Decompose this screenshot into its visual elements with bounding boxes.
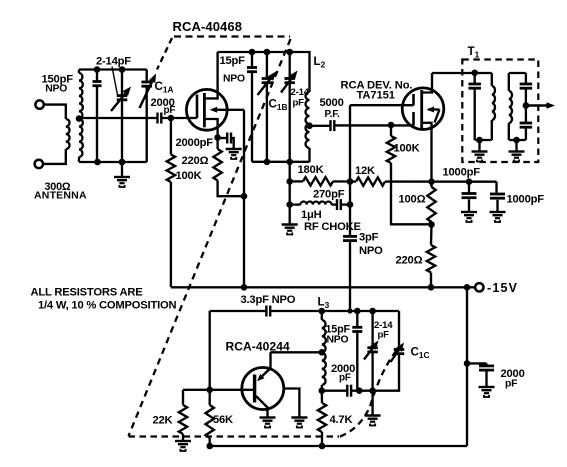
svg-text:1000pF: 1000pF (507, 194, 545, 206)
capacitor 5000pF series (329, 120, 331, 131)
resistor 12K (350, 180, 356, 182)
svg-text:15pF: 15pF (220, 55, 246, 67)
node tank1 bottom a (94, 159, 101, 166)
node source rail (428, 178, 435, 185)
node bottom rail 56K (206, 443, 213, 450)
Q1 substrate arrow (217, 109, 229, 111)
wire T1 primary top (475, 72, 492, 74)
node L1 tap (76, 115, 83, 122)
arrow trimmer osc (364, 348, 373, 360)
inductor L2 (306, 92, 310, 148)
wire tank1 bottom bus (79, 161, 147, 163)
node T1 secondary gnd (513, 137, 520, 144)
output arrow (526, 104, 547, 106)
node osc tank top 2-14 (369, 308, 376, 315)
Q2 substrate arrow (431, 108, 434, 110)
Q1 gate bar (196, 95, 199, 119)
capacitor trimmer 2-14pF osc (371, 311, 373, 348)
capacitor C1C (398, 311, 400, 349)
svg-text:270pF: 270pF (313, 188, 345, 200)
capacitor 150pF NPO (96, 70, 98, 82)
capacitor 3.3pF series (265, 306, 267, 317)
svg-text:5000: 5000 (320, 97, 344, 109)
capacitor 3pF NPO (343, 235, 357, 238)
capacitor trimmer 2-14pF tank1 (121, 70, 123, 96)
ground tank1 (121, 162, 123, 176)
ground T1 primary (478, 140, 480, 151)
node rail right tee (464, 284, 471, 291)
terminal: antenna input bottom (35, 160, 43, 168)
wire right side vertical (466, 287, 468, 446)
svg-text:RF CHOKE: RF CHOKE (304, 221, 362, 233)
wire tank1 top bus (79, 68, 147, 70)
dashed gang line bottom (129, 435, 340, 437)
node gate1/270pF (347, 201, 354, 208)
capacitor C1B (266, 52, 268, 78)
wire T1 secondary bottom (509, 139, 526, 141)
node osc base (206, 387, 213, 394)
wire bottom rail (210, 445, 467, 447)
Q3 emitter lead (262, 370, 268, 376)
transistor Q3 RCA-40244 circle (242, 368, 284, 410)
svg-text:pF: pF (505, 378, 517, 389)
arrow trimmer tank2 (281, 78, 292, 93)
node tank2 bottom b (264, 159, 271, 166)
ground Q3 right (291, 418, 307, 428)
dashed gang line curve to C1C (340, 346, 401, 437)
ground bias left (282, 225, 298, 235)
svg-text:100Ω: 100Ω (399, 194, 426, 206)
capacitor C1A (146, 70, 148, 82)
ground Q3 collector (260, 418, 276, 428)
Q3 collector lead (256, 396, 268, 417)
ground 1000pF B (490, 212, 506, 222)
Q3 base bar (253, 375, 256, 403)
transistor Q2 TA7151 circle (402, 88, 444, 130)
capacitor 2000pF right (467, 362, 487, 364)
capacitor T1 secondary lower (525, 106, 527, 123)
node tank2 bottom c (286, 159, 293, 166)
node rail 220-ohm (428, 284, 435, 291)
capacitor 15pF NPO tank2 (247, 66, 257, 69)
ground osc tank (371, 391, 373, 415)
resistor 220-ohm Q1 source (216, 138, 218, 149)
capacitor T1 secondary upper (525, 73, 527, 84)
svg-text:220Ω: 220Ω (396, 254, 423, 266)
svg-text:-15V: -15V (487, 281, 518, 295)
svg-text:56K: 56K (213, 414, 233, 426)
svg-text:pF: pF (293, 97, 305, 108)
capacitor 1000pF A (468, 182, 470, 194)
svg-text:100K: 100K (394, 142, 420, 154)
svg-text:NPO: NPO (223, 73, 245, 84)
node bottom rail 4.7K (319, 443, 326, 450)
wire terminal-bottom to primary (43, 149, 66, 164)
svg-text:P.F.: P.F. (325, 109, 341, 120)
svg-text:22K: 22K (153, 414, 173, 426)
svg-text:NPO: NPO (327, 335, 349, 346)
node 2-14 bottom (369, 387, 376, 394)
inductor antenna primary winding (66, 119, 70, 149)
svg-text:NPO: NPO (359, 245, 383, 257)
ground 22K (175, 441, 191, 451)
wire base bus (183, 389, 255, 391)
capacitor trimmer 2-14pF tank2 (289, 52, 291, 78)
wire bias left vertical (289, 162, 291, 224)
wire gate2 bus (334, 124, 413, 126)
svg-text:ALL RESISTORS ARE: ALL RESISTORS ARE (31, 287, 144, 299)
svg-text:220Ω: 220Ω (182, 155, 209, 167)
node 15pF bottom (356, 387, 363, 394)
capacitor T1 primary (474, 73, 476, 84)
node gate2 / 100K (388, 122, 395, 129)
svg-text:1/4 W, 10 % COMPOSITION: 1/4 W, 10 % COMPOSITION (38, 300, 177, 312)
svg-text:100K: 100K (176, 170, 202, 182)
wire Q1 substrate down (243, 110, 245, 287)
wire gate1 vertical (349, 105, 351, 236)
ground 2000pF right (479, 387, 495, 397)
terminal: antenna input top (35, 100, 43, 108)
node tank1 top a (94, 66, 101, 73)
wire drain to T1 (432, 72, 475, 74)
resistor 180K (290, 180, 303, 182)
svg-text:NPO: NPO (45, 84, 67, 95)
svg-text:180K: 180K (298, 164, 324, 176)
ground Q1 bypass (226, 149, 242, 159)
Q2 drain lead (422, 73, 432, 93)
dashed gang line top (174, 35, 290, 37)
node 2000pF tee (464, 360, 471, 367)
inductor L1 secondary winding (79, 73, 83, 157)
svg-text:12K: 12K (355, 165, 375, 177)
capacitor 2000pF osc (322, 390, 347, 392)
resistor 22K (182, 390, 184, 405)
Q2 gate1 bar (412, 94, 415, 105)
capacitor 15pF NPO osc (356, 311, 358, 327)
svg-text:pF: pF (378, 330, 390, 341)
Q3 right lead (284, 389, 300, 417)
node T1 input (471, 70, 478, 77)
wire tank2 left side top (251, 52, 253, 67)
node Q1 source (214, 134, 221, 141)
svg-text:2-14pF: 2-14pF (96, 55, 131, 67)
node osc tank top 15pF (354, 308, 361, 315)
wire emitter to L3 tap (271, 351, 322, 353)
node tank2 top b (264, 49, 271, 56)
node gate1 bus / 100K top (168, 115, 175, 122)
inductor 1uH RF choke (290, 203, 301, 205)
resistor 100K mixer (390, 125, 392, 136)
node T1 output tap (523, 102, 530, 109)
inductor T1 secondary (508, 73, 510, 91)
resistor 56K (209, 390, 211, 405)
dashed gang line diagonal (129, 39, 291, 436)
node T1 primary gnd (476, 137, 483, 144)
resistor 100K Q1 gate (170, 118, 172, 155)
arrow C1C (391, 350, 399, 362)
Q2 source lead (422, 123, 432, 182)
capacitor 270pF (336, 199, 338, 210)
svg-text:3pF: 3pF (359, 232, 379, 244)
inductor L3 (321, 311, 323, 320)
capacitor 1000pF B (495, 182, 497, 194)
node bias left 180K (286, 178, 293, 185)
svg-text:pF: pF (164, 105, 176, 116)
node 1000pF A (466, 178, 473, 185)
node L3 bottom (319, 387, 326, 394)
node L2 tap (306, 123, 313, 130)
Q1 source lead (204, 119, 217, 138)
svg-text:TA7151: TA7151 (357, 89, 395, 101)
wire terminal-top to primary (44, 105, 66, 119)
svg-text:4.7K: 4.7K (330, 414, 353, 426)
node bias left choke (286, 201, 293, 208)
wire -15V rail (171, 286, 475, 288)
leader line 2-14pF tank1 (112, 67, 118, 96)
arrow C1B (258, 79, 271, 95)
node L3 tap (319, 349, 326, 356)
svg-text:ANTENNA: ANTENNA (34, 189, 87, 201)
node gate1/180K/12K (347, 178, 354, 185)
node osc tank top L3 (319, 308, 326, 315)
svg-text:2000pF: 2000pF (176, 137, 214, 149)
svg-text:3.3pF NPO: 3.3pF NPO (241, 294, 296, 306)
inductor T1 primary (491, 73, 493, 86)
arrow trimmer 2-14pF tank1 (111, 94, 125, 112)
transistor Q1 RCA-40468 circle (186, 89, 227, 130)
Q2 gate2 bar (412, 112, 415, 126)
wire L2 tap to 5000pF (310, 125, 330, 127)
terminal -15V (475, 283, 483, 291)
dashed gang line label pointer (157, 38, 172, 70)
node tank2 top a (249, 49, 256, 56)
wire T1 primary bottom (475, 139, 492, 141)
wire tank2 bottom bus (252, 161, 310, 163)
capacitor 2000pF bypass Q1 (218, 137, 227, 139)
wire 3.3pF bus right (270, 310, 399, 312)
T1 dashed box (462, 60, 538, 163)
svg-text:RCA-40468: RCA-40468 (173, 19, 243, 34)
wire osc left vertical (209, 311, 211, 390)
ground 1000pF A (461, 212, 477, 222)
node tank2 top c (286, 49, 293, 56)
wire 3.3pF bus (210, 310, 267, 312)
svg-text:pF: pF (339, 373, 351, 384)
Q1 drain lead (204, 52, 217, 98)
resistor 4.7K (321, 391, 324, 403)
node osc tank top inj (347, 308, 352, 313)
node substrate rail join (241, 284, 248, 291)
node substrate/220 join (241, 193, 248, 200)
arrow C1A (140, 82, 153, 108)
wire L1 top lead (78, 70, 80, 74)
resistor 220-ohm mixer (430, 225, 433, 246)
node tank1 top b (119, 66, 126, 73)
ground T1 secondary (515, 140, 517, 151)
node 100-ohm bottom (428, 221, 435, 228)
node tank1 bottom b (119, 159, 126, 166)
wire L1 bottom lead (78, 157, 80, 162)
capacitor 2000pF series (156, 113, 158, 124)
wire series cap to gate (161, 117, 197, 119)
Q1 channel bar (203, 93, 206, 127)
wire tank2 top bus (218, 52, 310, 92)
Q2 channel bar (420, 90, 423, 129)
wire tank1 tap bus (79, 117, 158, 119)
wire T1 secondary top (509, 72, 526, 74)
svg-text:1μH: 1μH (301, 209, 322, 221)
svg-text:1000pF: 1000pF (443, 166, 481, 178)
resistor 100-ohm (430, 182, 432, 187)
wire gate1 horizontal (350, 104, 414, 106)
